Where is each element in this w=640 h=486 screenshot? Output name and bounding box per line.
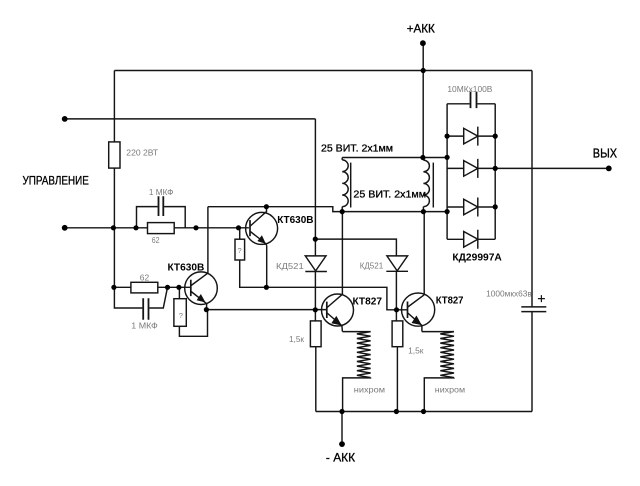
svg-text:?: ? xyxy=(179,311,183,320)
transistor VT2 base bar xyxy=(190,280,192,296)
transformer coil right winding xyxy=(422,158,424,161)
transistor VT4 collector xyxy=(408,295,424,307)
node junction cap stub left xyxy=(133,225,138,230)
diode VD2 KD521 triangle xyxy=(386,256,408,271)
resistor nichrome left zigzag xyxy=(357,332,371,378)
transistor VT3 collector xyxy=(327,294,342,307)
transistor VT1 upper KT630B circle xyxy=(246,212,278,244)
node junction rail right VD3 xyxy=(493,134,498,139)
svg-text:?: ? xyxy=(238,246,242,255)
transformer core bar left xyxy=(350,163,352,208)
emitter arrow VT2 xyxy=(197,295,204,302)
wire right KT827 collector riser xyxy=(423,212,425,295)
svg-text:1 МКФ: 1 МКФ xyxy=(131,321,158,331)
node junction rail bottom x342 xyxy=(339,409,344,414)
wire base line lower KT630B emitter to left KT827 xyxy=(206,309,326,311)
diode VD3 top xyxy=(447,127,495,146)
transistor VT3 emitter xyxy=(327,313,342,332)
capacitor C3 plates xyxy=(471,92,477,109)
node terminal input 2 xyxy=(62,225,68,231)
node junction VD1 bottom base xyxy=(313,307,318,312)
svg-text:нихром: нихром xyxy=(354,385,385,395)
svg-text:+АКК: +АКК xyxy=(407,22,435,36)
svg-text:1,5к: 1,5к xyxy=(408,346,424,356)
capacitor C1 1MKF loop stubs xyxy=(137,207,186,228)
transistor VT1 base bar xyxy=(249,220,251,236)
node junction +AKK top rail xyxy=(421,68,426,73)
svg-text:- АКК: - АКК xyxy=(326,450,355,464)
node junction coil right top xyxy=(420,155,425,160)
capacitor C2 1MKF lower loop xyxy=(149,287,167,308)
wire lower input line y=287 xyxy=(114,286,190,288)
node junction rail left y157 xyxy=(445,155,450,160)
transformer coil left winding xyxy=(341,158,343,160)
transistor VT2 emitter xyxy=(191,292,207,310)
transistor VT2 collector xyxy=(191,273,208,285)
wire lower KT630B collector riser xyxy=(207,207,209,274)
transistor VT4 base bar xyxy=(407,302,409,319)
wire control input line 2 xyxy=(65,227,249,229)
node junction rail bottom x396 xyxy=(394,409,399,414)
wire -AKK drop xyxy=(341,412,343,445)
svg-text:КТ630В: КТ630В xyxy=(168,262,205,273)
resistor nichrome right zigzag xyxy=(440,332,454,378)
svg-text:УПРАВЛЕНИЕ: УПРАВЛЕНИЕ xyxy=(23,176,90,188)
resistor nichrome right lead top xyxy=(422,331,454,333)
wire VD2 cathode down through base junction xyxy=(395,271,397,321)
diode block right rail xyxy=(494,104,496,240)
wire top rail from left corner to right corner xyxy=(114,70,532,72)
node junction VT2 emitter xyxy=(204,307,209,312)
svg-text:1,5к: 1,5к xyxy=(289,334,304,344)
resistor nichrome left lead bottom xyxy=(343,378,371,412)
node junction y287 x114 xyxy=(111,285,116,290)
node junction VT1 collector xyxy=(264,204,269,209)
svg-text:КД29997А: КД29997А xyxy=(452,253,501,264)
transistor VT1 emitter xyxy=(250,232,266,246)
resistor R4 ? stub and leads xyxy=(240,228,267,287)
transformer primary top line xyxy=(342,157,447,159)
wire left KT827 collector riser xyxy=(341,212,343,295)
resistor R1 220 2VT body xyxy=(109,142,120,168)
wire collector line y=206.7 with jog to transformer xyxy=(208,207,342,212)
transistor VT2 lower KT630B circle xyxy=(185,272,218,305)
resistor R6 1.5k body left xyxy=(310,321,321,347)
svg-text:62: 62 xyxy=(140,273,150,283)
transistor VT4 emitter xyxy=(408,313,422,332)
resistor R4 body xyxy=(235,239,245,260)
node junction rail right VD5 xyxy=(493,204,498,209)
diode VD1 KD521 chain vertical xyxy=(314,119,316,321)
node junction y228 x196 xyxy=(193,225,198,230)
diode VD4 xyxy=(447,159,495,178)
diode VD6 bottom xyxy=(447,230,495,249)
resistor R3 62 body xyxy=(131,282,158,293)
node terminal input 1 xyxy=(62,116,68,122)
wire transformer bottom line xyxy=(342,211,447,213)
wire upper KT630B emitter drop xyxy=(266,245,268,287)
node junction rail bottom x424 xyxy=(421,409,426,414)
wire R6 to bottom rail xyxy=(315,347,317,412)
node junction x114 y228 xyxy=(111,225,116,230)
node terminal -AKK xyxy=(339,441,345,447)
node junction coil left bottom xyxy=(340,209,345,214)
node junction VD1 top xyxy=(313,237,318,242)
wire link to right diode VD2 xyxy=(315,239,396,256)
svg-text:КД521: КД521 xyxy=(276,261,304,271)
node terminal VYH xyxy=(606,166,612,172)
node junction rail right VD4 out xyxy=(493,166,498,171)
resistor R5 ? leads xyxy=(179,287,207,336)
capacitor C1 plates xyxy=(159,196,164,216)
transistor VT4 right KT827 circle xyxy=(402,293,435,326)
svg-text:25 ВИТ. 2х1мм: 25 ВИТ. 2х1мм xyxy=(353,188,426,200)
transistor VT3 left KT827 circle xyxy=(322,294,354,326)
wire control input line 1 xyxy=(65,118,316,120)
emitter arrow VT4 xyxy=(413,317,421,325)
diode VD5 xyxy=(447,198,495,217)
capacitor C3 10MKx100V leads xyxy=(447,103,495,105)
node junction cap diag xyxy=(165,285,170,290)
emitter arrow VT3 xyxy=(332,317,340,325)
resistor R5 body xyxy=(174,299,186,327)
svg-text:25 ВИТ. 2х1мм: 25 ВИТ. 2х1мм xyxy=(321,143,393,155)
resistor nichrome right lead bottom xyxy=(424,378,454,412)
node junction coil right bottom xyxy=(421,209,426,214)
node junction VD2 bottom base xyxy=(394,307,399,312)
svg-text:62: 62 xyxy=(152,235,160,245)
transistor VT3 base bar xyxy=(326,302,328,318)
diode block left rail xyxy=(446,104,448,240)
svg-text:ВЫХ: ВЫХ xyxy=(593,146,618,160)
node junction R4 top xyxy=(236,225,241,230)
node junction R5 top xyxy=(176,285,181,290)
wire left edge with resistor gap xyxy=(114,71,142,309)
svg-text:КД521: КД521 xyxy=(360,260,384,270)
wire R7 to bottom rail xyxy=(396,347,398,412)
svg-text:1 МКФ: 1 МКФ xyxy=(149,187,174,197)
node junction rail left VD3 xyxy=(445,134,450,139)
svg-text:нихром: нихром xyxy=(435,385,465,395)
resistor R7 1.5k body right xyxy=(392,321,403,347)
wire right edge of outer loop xyxy=(531,71,533,412)
node terminal +AKK xyxy=(420,40,426,46)
capacitor C4 1000mk plates xyxy=(521,307,546,312)
svg-text:КТ827: КТ827 xyxy=(353,297,383,308)
wire VYH output line xyxy=(495,167,609,169)
wire bottom rail xyxy=(316,411,532,413)
svg-text:КТ630В: КТ630В xyxy=(277,215,313,226)
wire y=287 to right KT827 base with jog xyxy=(266,287,407,310)
diode VD1 KD521 triangle xyxy=(305,256,327,272)
resistor R2 62 body xyxy=(148,223,175,234)
svg-text:220 2ВТ: 220 2ВТ xyxy=(126,148,158,158)
svg-text:КТ827: КТ827 xyxy=(436,296,464,307)
node junction rail left y211 xyxy=(445,209,450,214)
node junction VT1 emitter xyxy=(264,285,269,290)
transistor VT1 collector xyxy=(250,207,266,226)
resistor nichrome left lead top xyxy=(342,331,370,333)
capacitor C4 plus sign xyxy=(538,295,545,302)
transformer core bar right xyxy=(432,163,434,208)
wire +AKK vertical feed xyxy=(422,43,424,157)
svg-text:1000мкх63в: 1000мкх63в xyxy=(486,289,532,299)
svg-text:10МКх100В: 10МКх100В xyxy=(447,84,492,94)
emitter arrow VT1 xyxy=(258,236,265,243)
capacitor C2 plates xyxy=(143,298,148,320)
